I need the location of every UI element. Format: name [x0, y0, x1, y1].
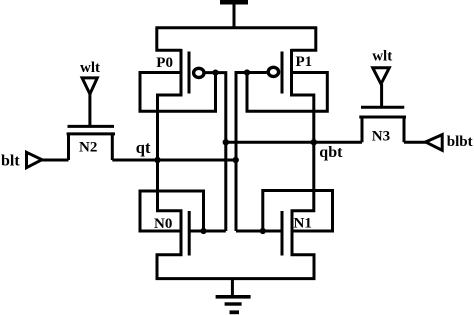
svg-text:P0: P0 — [156, 55, 173, 71]
svg-text:N1: N1 — [294, 215, 312, 231]
svg-text:blt: blt — [1, 153, 20, 170]
svg-text:qt: qt — [136, 138, 151, 157]
svg-text:wlt: wlt — [372, 49, 392, 65]
svg-text:N2: N2 — [79, 140, 97, 156]
svg-text:N3: N3 — [372, 128, 390, 144]
svg-text:wlt: wlt — [80, 60, 100, 76]
svg-text:P1: P1 — [296, 54, 313, 70]
svg-text:blbt: blbt — [447, 134, 473, 150]
svg-text:N0: N0 — [154, 216, 172, 232]
svg-text:qbt: qbt — [319, 144, 343, 161]
